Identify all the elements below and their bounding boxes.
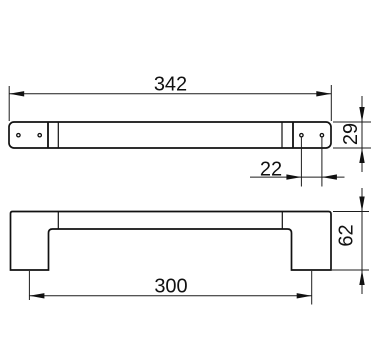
svg-text:29: 29 <box>340 123 362 145</box>
dim 22 arrow right <box>322 174 337 179</box>
dim 22 line <box>250 176 345 178</box>
dim 22 arrow left <box>286 174 301 179</box>
dim 29 arrow up <box>359 148 364 163</box>
dim 342 line <box>9 93 331 95</box>
dim 62 arrow up <box>359 270 364 285</box>
dim 62 arrow down <box>359 197 364 212</box>
dim 300 line <box>29 295 311 297</box>
dim 29 arrow down <box>359 107 364 122</box>
hole right-2 <box>320 134 323 137</box>
joint line right thin <box>281 122 283 148</box>
dim 342 extension left <box>8 86 10 121</box>
dim 342 extension right <box>330 85 332 121</box>
joint line front-left <box>57 212 59 230</box>
handle body (top view) <box>9 122 331 148</box>
dim 300 extension left <box>28 271 30 300</box>
hole left-1 <box>17 134 20 137</box>
handle outline (front view) <box>11 212 332 271</box>
dim 29 extension top <box>333 121 371 123</box>
dim 342 arrow left <box>9 91 24 96</box>
joint line left thin <box>57 122 59 148</box>
dim 62 line lower <box>361 188 363 294</box>
joint line front-right <box>281 212 283 230</box>
hole right-1 <box>300 134 303 137</box>
dim 62 extension top <box>333 211 369 213</box>
dim 22 extension right <box>321 137 323 187</box>
dim 29 line upper <box>361 96 363 172</box>
svg-text:22: 22 <box>260 159 282 181</box>
dim 300 arrow left <box>29 293 44 298</box>
svg-text:300: 300 <box>154 276 187 298</box>
dim 300 extension right <box>311 271 313 305</box>
hole left-2 <box>38 134 41 137</box>
svg-text:342: 342 <box>154 74 187 96</box>
dim 22 extension left <box>300 137 302 187</box>
dim 29 extension bottom <box>333 147 371 149</box>
joint line left cap edge <box>47 122 49 148</box>
dim 62 extension bottom <box>332 269 369 271</box>
dim 300 arrow right <box>297 293 312 298</box>
svg-text:62: 62 <box>336 224 358 246</box>
dim 342 arrow right <box>316 91 331 96</box>
joint line right cap edge <box>292 122 294 148</box>
